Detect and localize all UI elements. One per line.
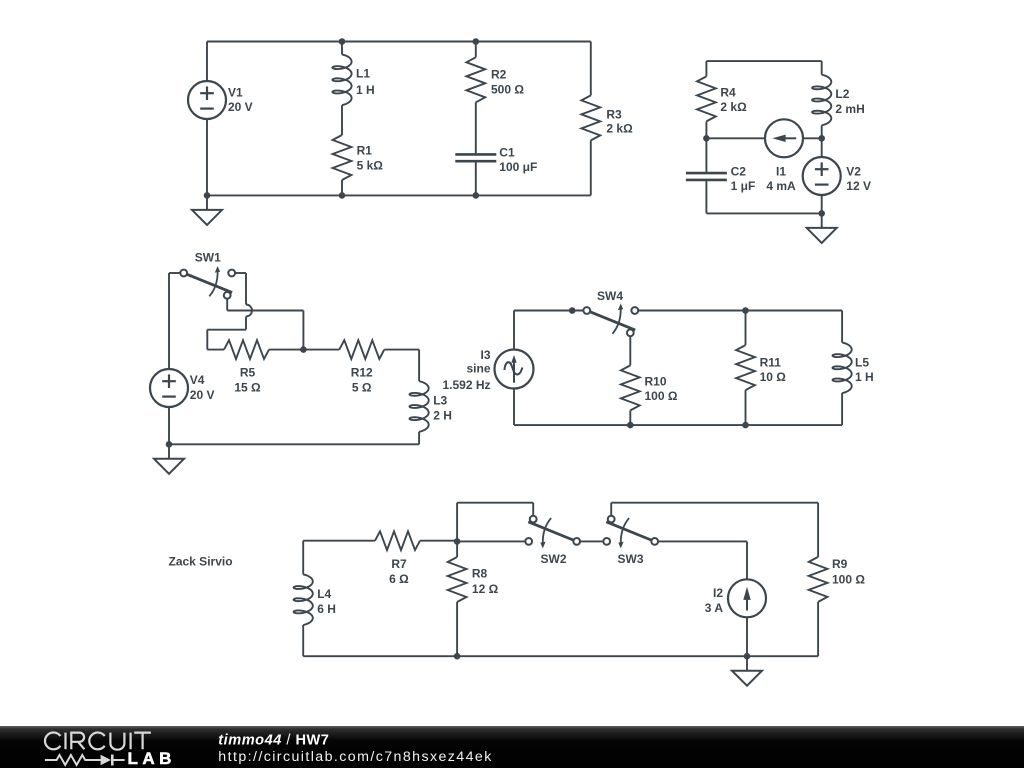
svg-text:20 V: 20 V — [190, 388, 215, 402]
svg-text:R4: R4 — [720, 85, 736, 99]
svg-text:6 Ω: 6 Ω — [389, 572, 409, 586]
svg-text:I3: I3 — [480, 348, 490, 362]
svg-text:12 V: 12 V — [846, 179, 871, 193]
svg-text:R5: R5 — [240, 366, 256, 380]
svg-text:4 mA: 4 mA — [766, 179, 796, 193]
svg-text:100 μF: 100 μF — [499, 160, 537, 174]
svg-text:1.592 Hz: 1.592 Hz — [442, 378, 490, 392]
svg-text:Zack Sirvio: Zack Sirvio — [169, 554, 233, 568]
svg-text:R11: R11 — [760, 356, 782, 370]
svg-text:V2: V2 — [846, 164, 861, 178]
svg-text:5 Ω: 5 Ω — [352, 381, 372, 395]
svg-text:L3: L3 — [433, 394, 447, 408]
svg-text:100 Ω: 100 Ω — [645, 389, 678, 403]
svg-text:R3: R3 — [606, 107, 622, 121]
svg-text:12 Ω: 12 Ω — [472, 582, 499, 596]
svg-text:SW4: SW4 — [597, 289, 623, 303]
svg-text:10 Ω: 10 Ω — [760, 370, 787, 384]
svg-text:I2: I2 — [713, 586, 723, 600]
svg-text:SW1: SW1 — [195, 250, 221, 264]
svg-text:15 Ω: 15 Ω — [234, 381, 261, 395]
svg-text:timmo44 / HW7: timmo44 / HW7 — [218, 733, 329, 749]
svg-text:6 H: 6 H — [317, 602, 336, 616]
svg-text:http://circuitlab.com/c7n8hsxe: http://circuitlab.com/c7n8hsxez44ek — [218, 749, 492, 765]
svg-text:V1: V1 — [228, 85, 243, 99]
svg-text:2 mH: 2 mH — [835, 102, 864, 116]
svg-text:100 Ω: 100 Ω — [832, 573, 865, 587]
svg-text:LAB: LAB — [128, 749, 176, 768]
svg-text:SW2: SW2 — [540, 552, 566, 566]
svg-text:2 kΩ: 2 kΩ — [720, 100, 747, 114]
svg-text:3 A: 3 A — [705, 601, 724, 615]
svg-text:1 H: 1 H — [356, 83, 375, 97]
svg-text:C2: C2 — [731, 164, 747, 178]
svg-text:L5: L5 — [855, 356, 869, 370]
svg-text:R7: R7 — [391, 557, 407, 571]
svg-text:R2: R2 — [491, 68, 507, 82]
svg-text:R10: R10 — [645, 374, 667, 388]
svg-text:R12: R12 — [351, 366, 373, 380]
svg-text:I1: I1 — [776, 164, 786, 178]
svg-text:SW3: SW3 — [617, 552, 643, 566]
svg-text:L2: L2 — [835, 87, 849, 101]
svg-text:2 kΩ: 2 kΩ — [606, 122, 633, 136]
svg-text:R8: R8 — [472, 566, 488, 580]
svg-text:sine: sine — [466, 361, 490, 375]
svg-text:1 μF: 1 μF — [731, 179, 756, 193]
svg-text:1 H: 1 H — [855, 370, 874, 384]
svg-text:500 Ω: 500 Ω — [491, 82, 524, 96]
svg-text:C1: C1 — [499, 145, 515, 159]
svg-text:R9: R9 — [832, 557, 848, 571]
svg-text:L1: L1 — [356, 66, 370, 80]
svg-text:20 V: 20 V — [228, 100, 253, 114]
svg-text:2 H: 2 H — [433, 409, 452, 423]
svg-text:R1: R1 — [357, 144, 373, 158]
svg-text:L4: L4 — [317, 587, 331, 601]
svg-text:5 kΩ: 5 kΩ — [357, 159, 384, 173]
svg-text:V4: V4 — [190, 373, 205, 387]
